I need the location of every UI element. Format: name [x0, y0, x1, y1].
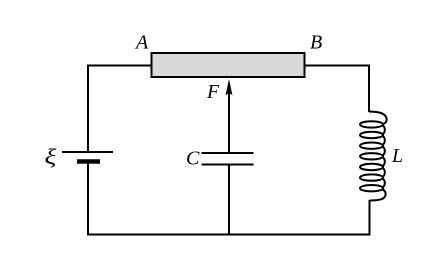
svg-text:B: B: [310, 32, 322, 54]
wire left vertical lower: [87, 164, 89, 236]
resistor (rheostat) A-B: [152, 53, 305, 77]
wire right vertical lower: [369, 200, 371, 236]
svg-text:F: F: [206, 81, 220, 103]
wire top-right (node B to right branch): [305, 65, 370, 67]
svg-text:A: A: [134, 32, 149, 54]
battery (EMF source) xi: [62, 152, 113, 162]
capacitor C: [202, 153, 254, 165]
svg-text:L: L: [391, 145, 403, 167]
wire top-left (node A to left branch): [87, 65, 151, 67]
svg-text:C: C: [186, 148, 200, 170]
wiper arrow at F: [226, 79, 233, 96]
wire middle vertical (wiper F shaft to capacitor): [228, 90, 230, 152]
wire left vertical upper: [87, 65, 89, 153]
wire middle vertical lower (capacitor to bottom): [228, 166, 230, 236]
wire right vertical upper: [368, 65, 370, 113]
inductor L coil: [360, 112, 387, 201]
svg-text:ξ: ξ: [45, 145, 57, 169]
wire bottom: [87, 234, 370, 236]
